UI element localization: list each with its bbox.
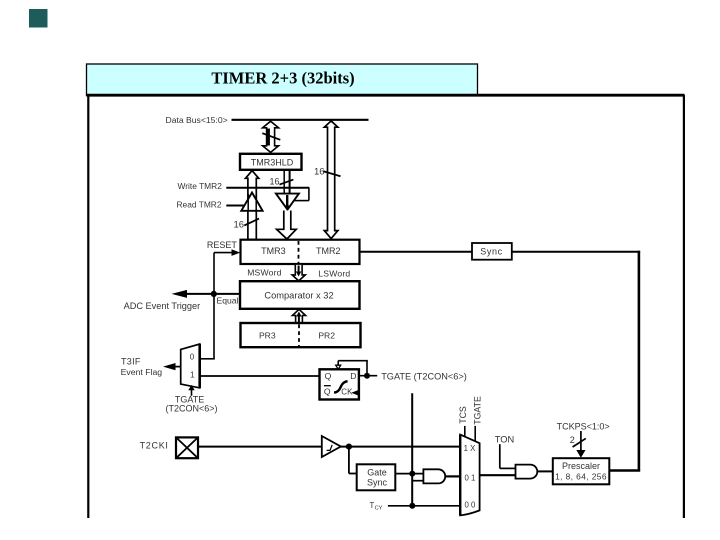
node TON xyxy=(495,435,516,469)
wire Write TMR2 xyxy=(178,181,310,201)
flip-flop D/Q xyxy=(320,369,359,399)
svg-text:Data Bus<15:0>: Data Bus<15:0> xyxy=(166,115,228,125)
corner bullet square xyxy=(29,9,48,28)
register TMR3HLD xyxy=(240,154,302,170)
svg-text:TMR3HLD: TMR3HLD xyxy=(251,158,294,168)
svg-text:0 0: 0 0 xyxy=(464,501,476,510)
wire mux out xyxy=(480,474,516,476)
block Sync xyxy=(472,243,512,260)
label 16 read path xyxy=(234,219,260,231)
read path up-arrow xyxy=(246,171,259,240)
svg-text:0: 0 xyxy=(190,353,195,362)
svg-text:16: 16 xyxy=(234,220,245,231)
svg-text:LSWord: LSWord xyxy=(318,268,350,278)
svg-text:TIMER 2+3 (32bits): TIMER 2+3 (32bits) xyxy=(211,69,354,88)
write path down-arrow xyxy=(277,211,297,240)
svg-text:PR3: PR3 xyxy=(259,330,276,340)
node RESET xyxy=(207,240,240,359)
wire T2CKI to buffer xyxy=(198,446,322,448)
svg-text:CK: CK xyxy=(341,388,353,397)
svg-text:TON: TON xyxy=(495,435,514,445)
svg-text:ADC Event Trigger: ADC Event Trigger xyxy=(124,301,201,311)
svg-text:Comparator x 32: Comparator x 32 xyxy=(264,291,333,301)
svg-text:T2CKI: T2CKI xyxy=(140,441,169,451)
svg-text:TGATE: TGATE xyxy=(472,396,482,425)
svg-text:TCS: TCS xyxy=(458,406,468,424)
wire TMR2 to Sync xyxy=(360,251,473,253)
mux clock source xyxy=(460,435,479,516)
svg-text:Read TMR2: Read TMR2 xyxy=(177,200,222,210)
svg-text:Write TMR2: Write TMR2 xyxy=(178,181,223,191)
write path lines from TMR3HLD xyxy=(284,170,289,194)
svg-text:MSWord: MSWord xyxy=(247,267,281,277)
svg-text:PR2: PR2 xyxy=(318,330,335,340)
register pair PR3:PR2 xyxy=(241,323,361,347)
wire mux input 1 from flip-flop Q xyxy=(200,375,320,377)
node T3IF Event Flag xyxy=(121,356,181,377)
node TCS select xyxy=(458,406,468,437)
node TCY xyxy=(370,501,461,512)
svg-text:16: 16 xyxy=(314,167,325,178)
svg-text:Sync: Sync xyxy=(367,478,388,488)
node Equal / ADC Event Trigger xyxy=(124,290,240,311)
svg-text:Event Flag: Event Flag xyxy=(121,367,163,377)
svg-text:1 X: 1 X xyxy=(464,444,477,453)
title bar xyxy=(87,64,478,96)
svg-text:Prescaler: Prescaler xyxy=(562,461,600,471)
bidirectional bus arrow to TMR3HLD xyxy=(262,121,280,152)
buffer write triangle xyxy=(276,194,299,211)
and gate A2 xyxy=(516,465,538,479)
svg-text:T3IF: T3IF xyxy=(121,356,141,366)
block Prescaler xyxy=(553,458,610,484)
svg-text:Equal: Equal xyxy=(217,295,239,305)
label 16 write path xyxy=(269,177,293,187)
svg-text:Q: Q xyxy=(324,386,331,396)
svg-text:1, 8, 64, 256: 1, 8, 64, 256 xyxy=(555,471,607,481)
svg-text:Sync: Sync xyxy=(480,246,502,256)
svg-text:TGATE (T2CON<6>): TGATE (T2CON<6>) xyxy=(381,372,467,382)
comparator block xyxy=(240,281,360,309)
svg-text:1: 1 xyxy=(190,371,195,380)
svg-text:D: D xyxy=(350,371,356,381)
wire buffer to mux 1X xyxy=(341,444,461,474)
node T2CKI pin xyxy=(140,437,198,458)
svg-text:RESET: RESET xyxy=(207,240,238,250)
svg-text:TMR2: TMR2 xyxy=(316,246,341,256)
node TCKPS xyxy=(557,421,610,458)
mux select TGATE xyxy=(165,385,217,414)
wire mux input 0 xyxy=(200,358,215,360)
wire A2 out xyxy=(537,470,553,472)
svg-text:0 1: 0 1 xyxy=(464,474,475,483)
svg-text:16: 16 xyxy=(269,177,279,187)
node TGATE select xyxy=(472,396,482,442)
svg-text:Q: Q xyxy=(325,371,332,381)
bus arrow 16-bit right xyxy=(314,121,341,239)
wire gate sync out xyxy=(395,473,423,475)
arrow PR to comparator xyxy=(292,309,305,323)
wire data bus xyxy=(232,119,369,121)
block Gate Sync xyxy=(357,464,396,490)
buffer schmitt xyxy=(322,436,341,457)
wire A1 out to mux 01 xyxy=(445,475,460,477)
outer frame xyxy=(87,95,685,518)
svg-text:Gate: Gate xyxy=(367,468,387,478)
svg-text:TMR3: TMR3 xyxy=(261,246,286,256)
svg-text:(T2CON<6>): (T2CON<6>) xyxy=(165,404,217,414)
svg-text:CY: CY xyxy=(375,506,383,512)
mux T3IF (0/1) xyxy=(181,344,200,388)
wire flip-flop D / TGATE xyxy=(336,361,467,382)
and gate A1 xyxy=(423,469,445,483)
buffer read triangle xyxy=(177,193,263,211)
svg-text:TCKPS<1:0>: TCKPS<1:0> xyxy=(557,421,610,431)
wire prescaler feedback to Sync xyxy=(512,251,640,472)
register pair TMR3:TMR2 xyxy=(241,240,360,264)
svg-text:2: 2 xyxy=(570,435,575,445)
wire TGATE vertical xyxy=(409,393,423,509)
arrow TMR to comparator xyxy=(292,265,305,281)
